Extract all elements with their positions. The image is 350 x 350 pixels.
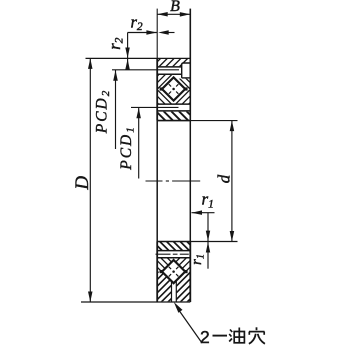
bearing axis centerline — [146, 180, 163, 182]
svg-text:d: d — [215, 174, 234, 183]
dimension D label — [72, 176, 93, 191]
outer ring bottom section outline — [157, 241, 190, 243]
dimension D line — [89, 58, 91, 302]
bore silhouette left — [156, 121, 158, 242]
dimension r1 label rotated — [189, 254, 207, 265]
bottom section lower hatch right of oil hole — [176, 270, 190, 302]
dimension r2 top leader — [128, 32, 157, 34]
top roller diagonal centerlines — [172, 88, 175, 91]
oil hole walls — [171, 281, 173, 302]
top section split line (PCD2 level) — [112, 69, 179, 71]
top section inner hatch band — [157, 111, 190, 120]
bottom section bore-side hatch band — [157, 242, 190, 251]
bottom roller zone hatch UL — [157, 258, 175, 274]
top roller zone hatch BL — [157, 87, 175, 104]
top section notch outline — [182, 63, 191, 78]
svg-text:D: D — [72, 176, 93, 191]
bottom section lower hatch left of oil hole — [157, 270, 171, 302]
bore silhouette right — [189, 121, 191, 242]
dimension r1 leader — [192, 212, 215, 214]
dimension d line — [231, 121, 233, 242]
oil hole leader arrow — [176, 307, 202, 344]
bottom roller diagonal centerlines — [172, 270, 175, 273]
dimension PCD1 line — [138, 107, 140, 178]
dimension PCD2 line — [115, 70, 117, 149]
top roller (crossed roller cross-section) — [162, 77, 185, 100]
dimension PCD1 label — [118, 125, 137, 171]
top roller zone hatch BR — [172, 87, 191, 104]
top section seam line lower — [157, 73, 182, 75]
dimension d label — [215, 174, 234, 183]
top section seam line upper — [157, 66, 182, 68]
bottom section split dash-dot line — [156, 253, 171, 255]
top roller zone hatch TR — [172, 75, 191, 91]
top roller zone hatch TL — [157, 75, 175, 91]
bottom section seam lower line — [157, 257, 190, 259]
bottom section seam upper line — [157, 250, 190, 252]
top section inner seam upper line — [157, 103, 190, 105]
dimension d extension lines — [190, 120, 237, 122]
top roller corner contacts — [160, 87, 163, 90]
top section outer hatch band — [157, 58, 190, 67]
bottom roller corner contacts — [160, 270, 163, 273]
dimension r2 label rotated — [105, 37, 126, 49]
bottom roller (crossed roller cross-section) — [162, 260, 185, 283]
outer ring top section outline — [86, 57, 191, 59]
svg-text:B: B — [170, 0, 180, 15]
top section inner seam lower line — [157, 110, 190, 112]
dimension B line — [157, 13, 190, 15]
dimension PCD2 label — [93, 89, 112, 135]
top section inner split line (PCD1 level) — [131, 106, 179, 108]
svg-text:2: 2 — [200, 327, 210, 347]
bottom roller zone hatch UR — [172, 258, 191, 274]
